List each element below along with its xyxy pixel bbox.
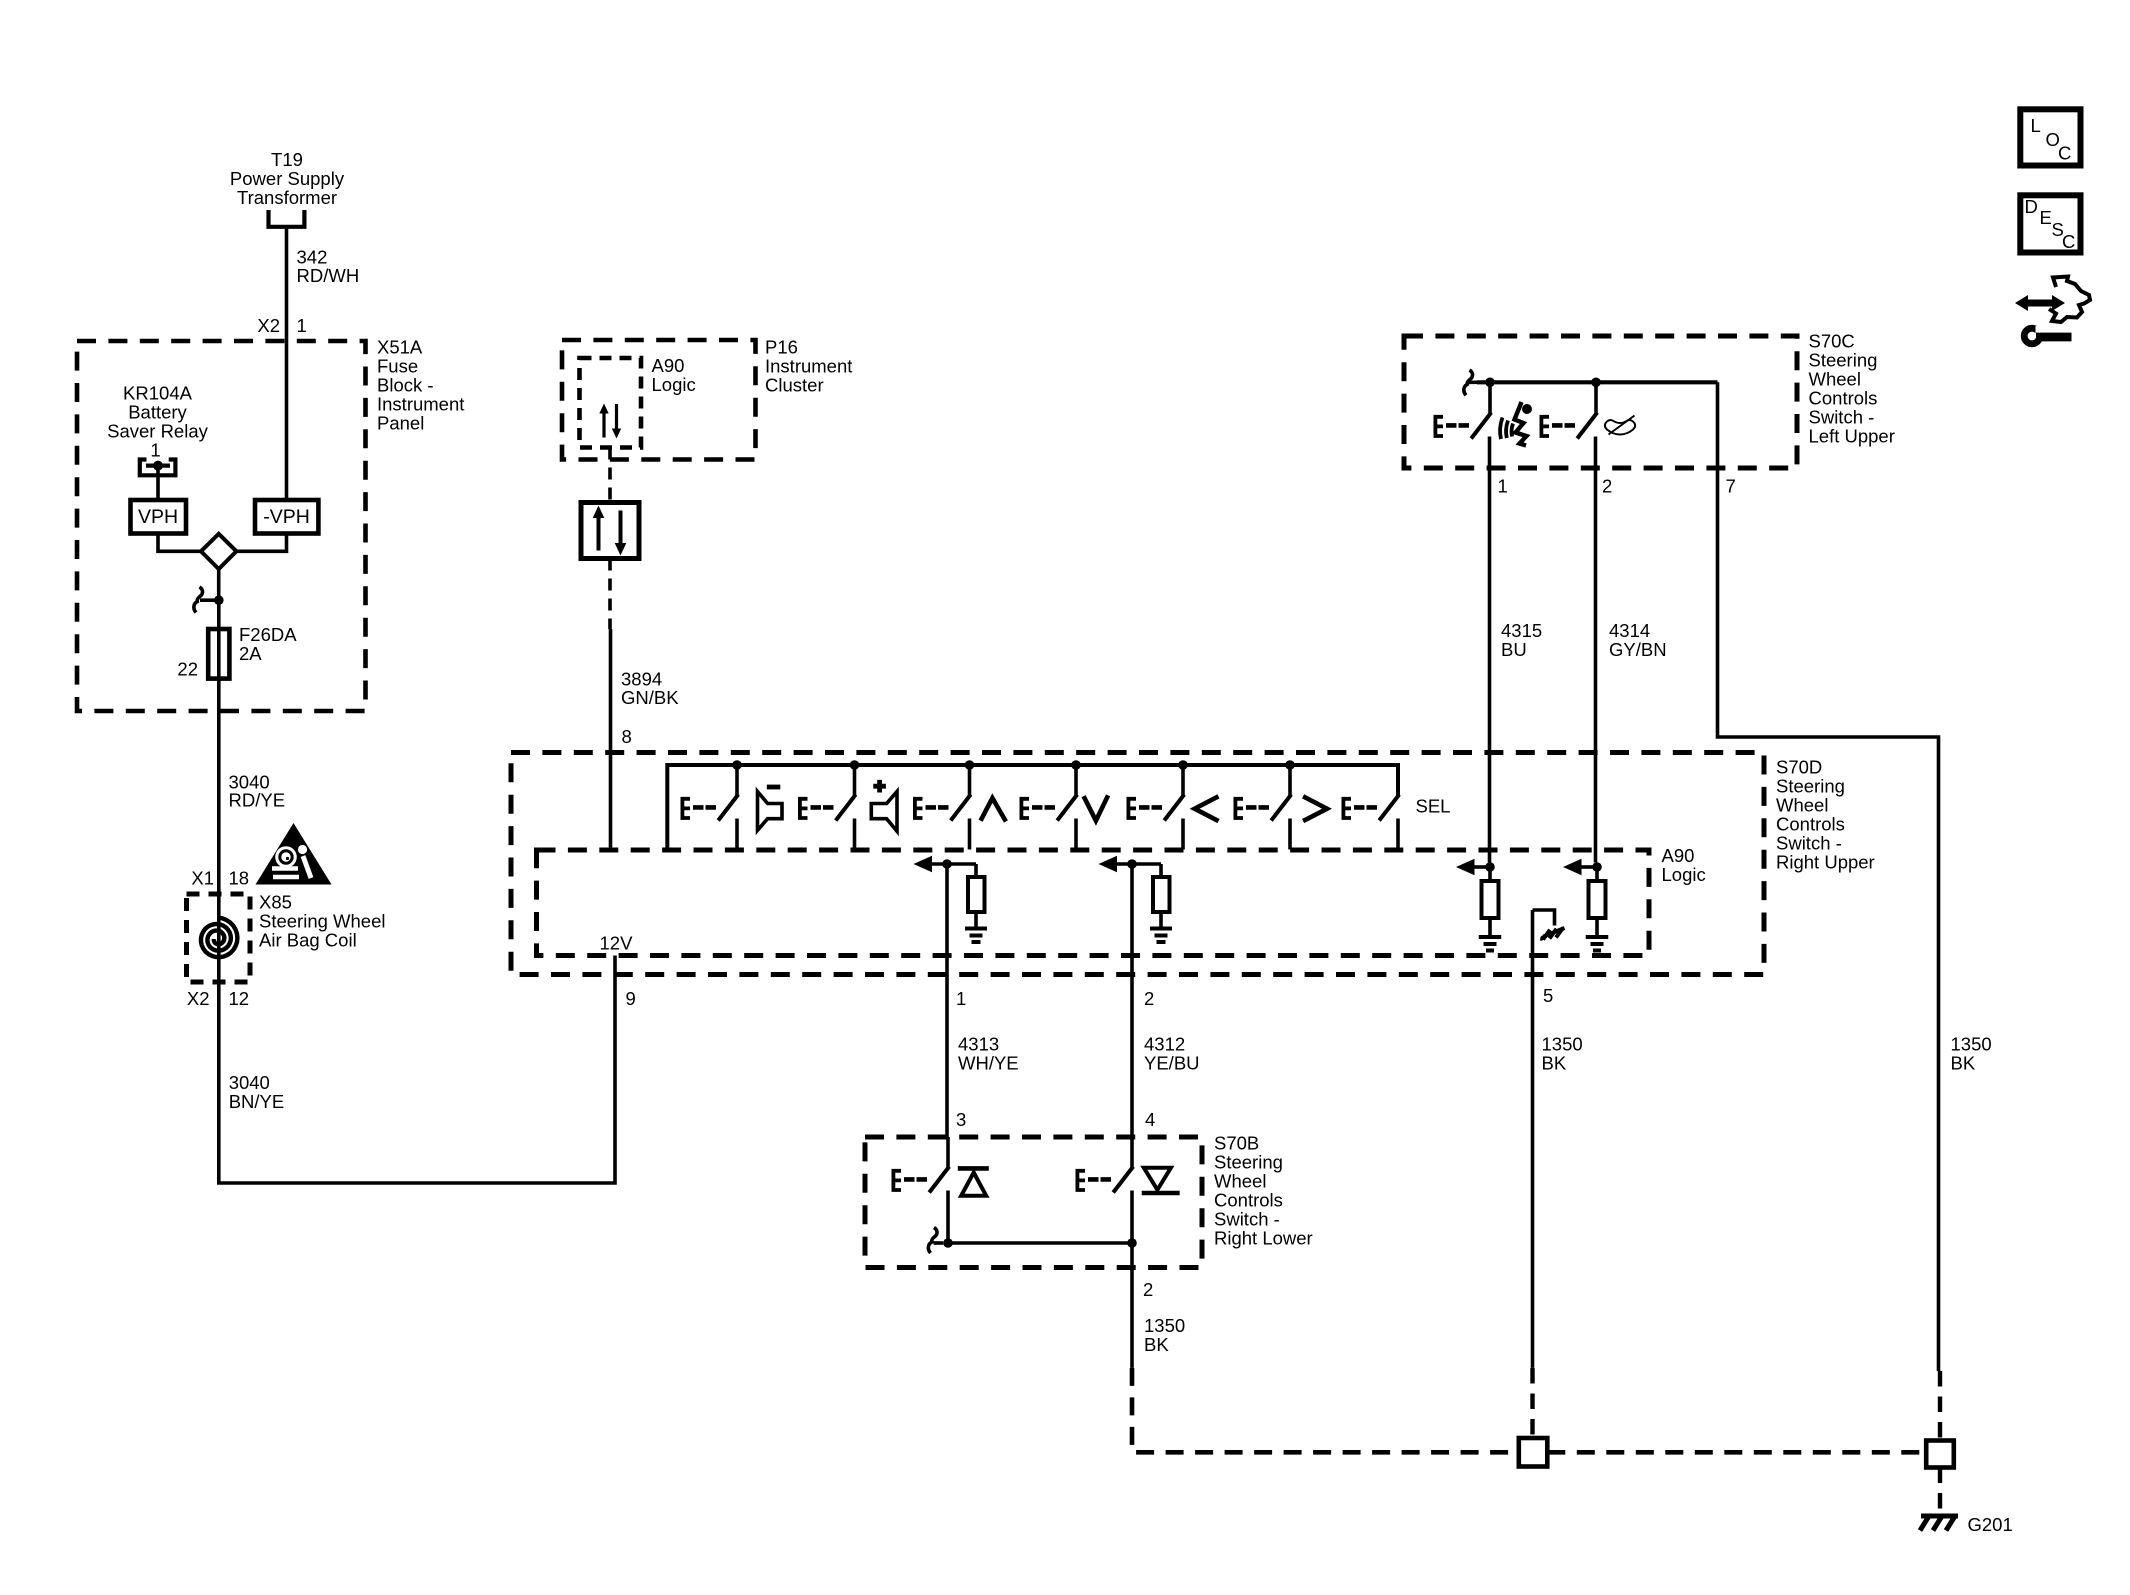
svg-text:Switch -: Switch - [1214, 1209, 1280, 1230]
svg-text:BU: BU [1501, 639, 1527, 660]
svg-text:BK: BK [1144, 1334, 1169, 1355]
svg-text:Instrument: Instrument [765, 356, 852, 377]
svg-text:F26DA: F26DA [239, 624, 297, 645]
svg-text:A90: A90 [652, 355, 685, 376]
svg-text:X2: X2 [257, 315, 280, 336]
svg-text:Power Supply: Power Supply [230, 168, 345, 189]
svg-text:5: 5 [1543, 985, 1553, 1006]
svg-text:X1: X1 [191, 868, 214, 889]
svg-text:Steering: Steering [1776, 776, 1845, 797]
svg-text:4: 4 [1145, 1109, 1155, 1130]
svg-text:Air Bag Coil: Air Bag Coil [259, 930, 357, 951]
svg-text:1: 1 [150, 440, 160, 461]
svg-text:GN/BK: GN/BK [621, 687, 679, 708]
svg-text:Wheel: Wheel [1214, 1171, 1266, 1192]
svg-text:1: 1 [297, 315, 307, 336]
svg-text:X85: X85 [259, 892, 292, 913]
svg-text:Block -: Block - [377, 375, 434, 396]
svg-text:-VPH: -VPH [263, 506, 310, 528]
svg-text:P16: P16 [765, 337, 798, 358]
svg-text:12: 12 [229, 988, 250, 1009]
svg-text:S70C: S70C [1809, 331, 1855, 352]
svg-text:4314: 4314 [1609, 620, 1650, 641]
svg-text:C: C [2058, 143, 2071, 164]
svg-text:C: C [2062, 231, 2075, 252]
svg-text:L: L [2031, 115, 2041, 136]
svg-text:Left Upper: Left Upper [1809, 426, 1895, 447]
svg-text:2: 2 [1144, 988, 1154, 1009]
svg-text:Right Lower: Right Lower [1214, 1228, 1313, 1249]
svg-text:Controls: Controls [1214, 1190, 1283, 1211]
svg-text:Saver Relay: Saver Relay [107, 421, 209, 442]
svg-text:Transformer: Transformer [237, 187, 337, 208]
svg-text:T19: T19 [271, 149, 303, 170]
svg-text:Fuse: Fuse [377, 356, 418, 377]
svg-text:1350: 1350 [1144, 1315, 1185, 1336]
svg-text:GY/BN: GY/BN [1609, 639, 1667, 660]
svg-text:RD/WH: RD/WH [297, 265, 360, 286]
svg-text:2: 2 [1602, 476, 1612, 497]
svg-text:7: 7 [1726, 476, 1736, 497]
svg-text:1: 1 [956, 988, 966, 1009]
svg-text:Right Upper: Right Upper [1776, 852, 1875, 873]
svg-text:9: 9 [626, 988, 636, 1009]
svg-text:12V: 12V [600, 933, 634, 954]
svg-text:2A: 2A [239, 643, 262, 664]
svg-text:Logic: Logic [652, 374, 696, 395]
svg-text:4313: 4313 [958, 1034, 999, 1055]
svg-text:1: 1 [1498, 476, 1508, 497]
svg-text:18: 18 [229, 868, 250, 889]
svg-text:Controls: Controls [1809, 388, 1878, 409]
svg-text:X51A: X51A [377, 337, 423, 358]
svg-text:S70D: S70D [1776, 757, 1822, 778]
svg-text:Wheel: Wheel [1776, 795, 1828, 816]
svg-text:Steering: Steering [1809, 350, 1878, 371]
svg-text:BK: BK [1951, 1053, 1976, 1074]
svg-text:G201: G201 [1968, 1514, 2013, 1535]
svg-text:Switch -: Switch - [1776, 833, 1842, 854]
svg-text:KR104A: KR104A [123, 383, 193, 404]
svg-text:YE/BU: YE/BU [1144, 1053, 1200, 1074]
svg-text:Battery: Battery [128, 402, 187, 423]
svg-text:WH/YE: WH/YE [958, 1053, 1019, 1074]
svg-text:Wheel: Wheel [1809, 369, 1861, 390]
svg-text:BN/YE: BN/YE [229, 1091, 285, 1112]
svg-text:Logic: Logic [1662, 864, 1706, 885]
svg-text:22: 22 [177, 659, 198, 680]
svg-text:Panel: Panel [377, 413, 424, 434]
svg-text:D: D [2025, 196, 2038, 217]
svg-text:A90: A90 [1662, 845, 1695, 866]
svg-text:VPH: VPH [138, 506, 178, 528]
svg-text:Steering: Steering [1214, 1152, 1283, 1173]
svg-text:1350: 1350 [1951, 1034, 1992, 1055]
svg-text:Steering Wheel: Steering Wheel [259, 911, 385, 932]
svg-text:Cluster: Cluster [765, 375, 824, 396]
svg-text:BK: BK [1542, 1053, 1567, 1074]
svg-text:1350: 1350 [1542, 1034, 1583, 1055]
svg-text:3: 3 [956, 1109, 966, 1130]
svg-text:RD/YE: RD/YE [229, 790, 286, 811]
svg-text:X2: X2 [187, 988, 210, 1009]
svg-text:E: E [2040, 207, 2052, 228]
svg-text:SEL: SEL [1416, 796, 1451, 817]
svg-text:2: 2 [1143, 1279, 1153, 1300]
svg-text:3040: 3040 [229, 1072, 270, 1093]
svg-text:4312: 4312 [1144, 1034, 1185, 1055]
svg-text:Instrument: Instrument [377, 394, 464, 415]
svg-text:8: 8 [622, 726, 632, 747]
svg-text:Controls: Controls [1776, 814, 1845, 835]
svg-text:4315: 4315 [1501, 620, 1542, 641]
svg-text:S70B: S70B [1214, 1133, 1259, 1154]
svg-text:Switch -: Switch - [1809, 407, 1875, 428]
